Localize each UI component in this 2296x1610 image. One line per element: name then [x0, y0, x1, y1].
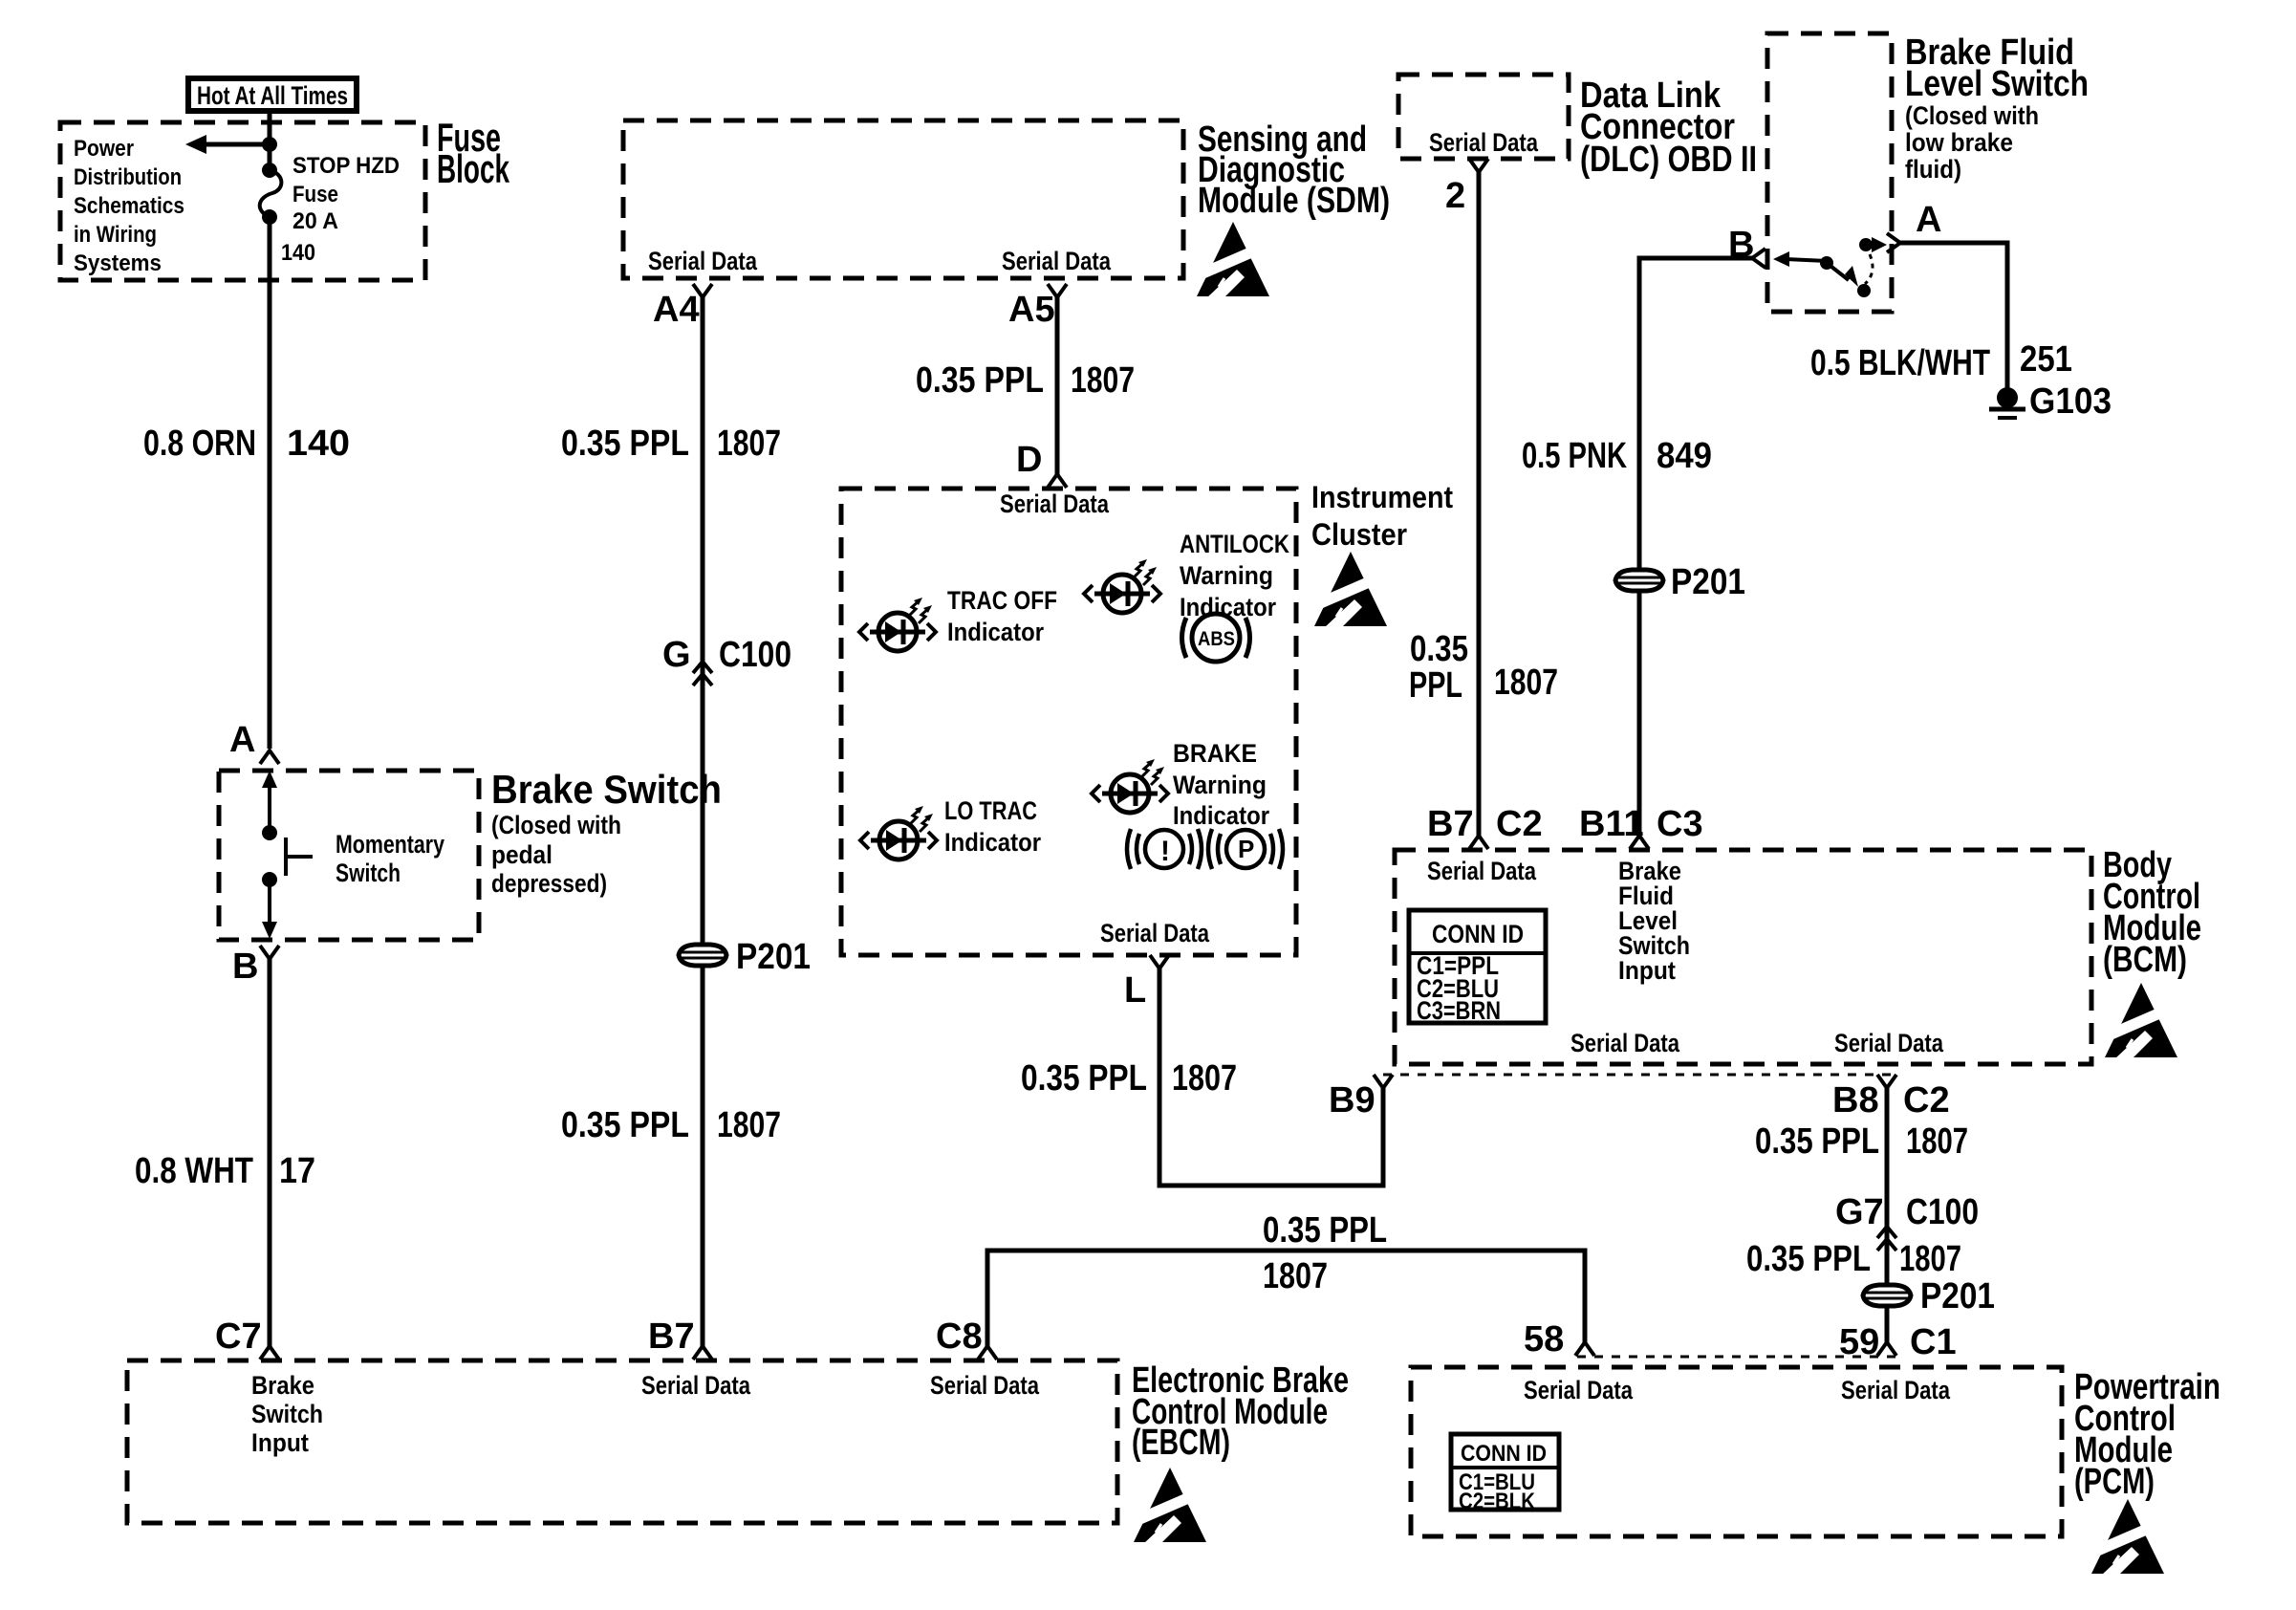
svg-text:(Closed with: (Closed with — [1905, 101, 2039, 130]
svg-text:Indicator: Indicator — [1173, 801, 1269, 830]
PCM connector face line — [1577, 1356, 1896, 1359]
svg-text:C2: C2 — [1496, 804, 1543, 844]
PCM dashed box — [1411, 1367, 2062, 1536]
svg-text:20 A: 20 A — [292, 208, 338, 234]
svg-text:0.35 PPL: 0.35 PPL — [1263, 1210, 1387, 1251]
wire: SDM A4 serial data down to EBCM B7 — [701, 297, 705, 1346]
svg-text:1807: 1807 — [1899, 1239, 1961, 1279]
wire: DLC pin 2 serial data down to BCM B7/C2 — [1477, 172, 1482, 836]
svg-text:ABS: ABS — [1198, 628, 1235, 650]
svg-text:Level Switch: Level Switch — [1905, 64, 2089, 104]
svg-text:Input: Input — [251, 1428, 309, 1457]
wire: fuse block feed from Hot At All Times — [268, 111, 272, 167]
svg-text:A4: A4 — [653, 290, 700, 330]
svg-text:Instrument: Instrument — [1311, 480, 1453, 514]
svg-text:B9: B9 — [1329, 1080, 1375, 1120]
DLC dashed box — [1398, 75, 1569, 159]
svg-text:B7: B7 — [1427, 804, 1474, 844]
svg-text:A5: A5 — [1008, 290, 1055, 330]
BFLS dashed box — [1767, 33, 1892, 312]
svg-text:(DLC) OBD II: (DLC) OBD II — [1580, 140, 1757, 180]
svg-text:1807: 1807 — [717, 1105, 781, 1145]
svg-text:CONN ID: CONN ID — [1461, 1441, 1547, 1467]
svg-text:!: ! — [1160, 836, 1170, 867]
ESD symbol EBCM — [1130, 1468, 1206, 1544]
svg-text:Switch: Switch — [251, 1400, 323, 1428]
svg-text:Warning: Warning — [1173, 771, 1267, 799]
ESD symbol SDM — [1193, 222, 1269, 298]
svg-text:Serial Data: Serial Data — [648, 247, 758, 275]
svg-text:C7: C7 — [215, 1316, 262, 1357]
svg-text:(Closed with: (Closed with — [491, 811, 621, 839]
svg-text:Systems: Systems — [74, 250, 162, 276]
svg-text:1807: 1807 — [717, 424, 781, 464]
svg-text:0.35 PPL: 0.35 PPL — [561, 1105, 689, 1145]
LED TRAC OFF indicator — [859, 598, 936, 651]
svg-text:D: D — [1016, 440, 1042, 480]
wire: BLK/WHT 251 from BFLS A right and down to ground — [1900, 243, 2007, 389]
svg-text:P201: P201 — [1671, 562, 1745, 602]
LED ANTILOCK warning indicator — [1084, 559, 1160, 613]
svg-text:Serial Data: Serial Data — [1570, 1029, 1680, 1057]
svg-text:0.35 PPL: 0.35 PPL — [1755, 1121, 1879, 1162]
svg-text:Fuse: Fuse — [292, 182, 338, 207]
svg-text:C2=BLK: C2=BLK — [1459, 1489, 1536, 1514]
svg-text:in Wiring: in Wiring — [74, 222, 157, 248]
svg-text:849: 849 — [1657, 436, 1712, 476]
svg-text:L: L — [1124, 970, 1146, 1011]
brake telltale symbol (!) — [1127, 829, 1202, 869]
svg-text:depressed): depressed) — [491, 869, 607, 898]
svg-text:140: 140 — [281, 240, 315, 266]
svg-text:17: 17 — [279, 1151, 315, 1191]
BCM dashed box — [1395, 850, 2091, 1064]
CONN ID table BCM — [1409, 910, 1546, 1023]
momentary switch contacts — [262, 771, 277, 788]
svg-text:2: 2 — [1445, 176, 1465, 216]
svg-text:Block: Block — [437, 146, 509, 191]
svg-text:1807: 1807 — [1263, 1256, 1328, 1296]
svg-text:0.5 PNK: 0.5 PNK — [1522, 436, 1627, 476]
svg-text:Momentary: Momentary — [336, 830, 444, 859]
svg-text:pedal: pedal — [491, 840, 552, 869]
wire: EBCM C8 serial data up/right/down to PCM 58 — [987, 1251, 1585, 1346]
svg-text:0.5 BLK/WHT: 0.5 BLK/WHT — [1810, 343, 1990, 383]
svg-text:Switch: Switch — [336, 859, 401, 887]
svg-text:Schematics: Schematics — [74, 193, 184, 219]
svg-text:Serial Data: Serial Data — [1000, 490, 1110, 518]
svg-text:fluid): fluid) — [1905, 155, 1961, 184]
svg-text:CONN ID: CONN ID — [1432, 920, 1524, 948]
svg-text:C8: C8 — [936, 1316, 983, 1357]
svg-text:Brake: Brake — [251, 1371, 314, 1400]
svg-text:58: 58 — [1524, 1319, 1564, 1360]
svg-text:Input: Input — [1618, 956, 1676, 985]
svg-text:P201: P201 — [1920, 1276, 1995, 1316]
power tag box Hot At All Times — [188, 78, 357, 111]
CONN ID table PCM — [1451, 1434, 1559, 1510]
svg-text:(EBCM): (EBCM) — [1132, 1423, 1230, 1463]
svg-text:251: 251 — [2020, 339, 2072, 380]
instrument cluster dashed box — [841, 489, 1296, 955]
svg-text:Serial Data: Serial Data — [1002, 247, 1112, 275]
svg-text:140: 140 — [287, 424, 350, 464]
svg-text:(PCM): (PCM) — [2074, 1462, 2155, 1502]
svg-text:PPL: PPL — [1409, 665, 1462, 706]
svg-text:1807: 1807 — [1071, 360, 1135, 401]
ground G103 — [1997, 387, 2018, 408]
svg-text:B7: B7 — [648, 1316, 695, 1357]
EBCM dashed box — [127, 1360, 1117, 1523]
svg-text:1807: 1807 — [1172, 1058, 1237, 1099]
svg-text:C2: C2 — [1903, 1080, 1950, 1120]
wire: IC L serial data down/right/up to BCM B9 — [1159, 968, 1383, 1186]
BCM connector face line — [1383, 1074, 1896, 1077]
svg-text:G7: G7 — [1835, 1192, 1884, 1232]
wire: fused output 140 inside fuse block down to brake switch A — [268, 220, 272, 749]
park telltale symbol (P) — [1208, 829, 1283, 869]
ESD symbol IC — [1310, 552, 1387, 628]
connector P201 on PNK wire — [1615, 570, 1663, 591]
switch contacts inside BFLS — [1820, 256, 1833, 270]
brake switch dashed box — [219, 771, 479, 940]
svg-text:Serial Data: Serial Data — [1524, 1376, 1634, 1404]
svg-text:Brake Switch: Brake Switch — [491, 767, 722, 812]
svg-text:P: P — [1238, 835, 1254, 863]
arrow to power distribution schematics — [203, 142, 270, 147]
svg-text:0.8 ORN: 0.8 ORN — [143, 424, 256, 464]
svg-text:G: G — [662, 635, 691, 675]
svg-text:C3: C3 — [1657, 804, 1703, 844]
svg-text:Serial Data: Serial Data — [1427, 857, 1537, 885]
svg-text:P201: P201 — [736, 937, 811, 977]
svg-text:C3=BRN: C3=BRN — [1417, 996, 1501, 1025]
svg-text:B: B — [232, 946, 258, 987]
svg-text:Serial Data: Serial Data — [641, 1371, 751, 1400]
svg-text:G103: G103 — [2029, 381, 2112, 422]
wire: brake switch B down to EBCM C7 — [268, 959, 272, 1346]
svg-text:0.35 PPL: 0.35 PPL — [916, 360, 1044, 401]
wire: PNK 849 from BFLS B down to BCM B11/C3 — [1639, 258, 1752, 836]
svg-text:ANTILOCK: ANTILOCK — [1180, 530, 1289, 558]
svg-text:STOP HZD: STOP HZD — [292, 153, 400, 179]
svg-text:Power: Power — [74, 136, 134, 162]
svg-text:Hot At All Times: Hot At All Times — [197, 81, 348, 110]
svg-text:0.35 PPL: 0.35 PPL — [561, 424, 689, 464]
ESD symbol BCM — [2101, 983, 2177, 1059]
svg-text:B11: B11 — [1579, 804, 1644, 844]
svg-text:Serial Data: Serial Data — [1100, 919, 1210, 947]
svg-text:0.35 PPL: 0.35 PPL — [1021, 1058, 1147, 1099]
ESD symbol PCM — [2088, 1499, 2164, 1576]
svg-text:A: A — [229, 720, 255, 760]
svg-text:Serial Data: Serial Data — [930, 1371, 1040, 1400]
wire: BCM B8 serial data down to PCM 59/C1 — [1885, 1088, 1890, 1342]
svg-text:LO TRAC: LO TRAC — [944, 796, 1037, 825]
LED BRAKE warning indicator — [1092, 759, 1168, 813]
svg-text:Serial Data: Serial Data — [1834, 1029, 1944, 1057]
svg-text:Cluster: Cluster — [1311, 517, 1407, 552]
svg-text:C100: C100 — [1906, 1192, 1979, 1232]
svg-text:0.35 PPL: 0.35 PPL — [1746, 1239, 1871, 1279]
svg-text:Warning: Warning — [1180, 561, 1273, 590]
svg-text:Serial Data: Serial Data — [1841, 1376, 1951, 1404]
wire: SDM A5 serial data down to IC D — [1055, 297, 1060, 474]
svg-text:1807: 1807 — [1494, 663, 1558, 703]
fuse STOP HZD 20A — [262, 163, 277, 178]
svg-text:B8: B8 — [1832, 1080, 1879, 1120]
LED LO TRAC indicator — [860, 806, 937, 859]
fuse block dashed box — [60, 122, 425, 280]
svg-text:Distribution: Distribution — [74, 164, 182, 190]
connector P201 on A4 wire — [679, 945, 726, 966]
svg-text:A: A — [1916, 200, 1941, 240]
connector P201 on B8 wire — [1863, 1285, 1911, 1306]
svg-text:BRAKE: BRAKE — [1173, 739, 1257, 768]
svg-text:Serial Data: Serial Data — [1429, 128, 1539, 157]
svg-text:TRAC OFF: TRAC OFF — [947, 586, 1057, 615]
ABS telltale symbol — [1182, 614, 1250, 662]
svg-text:low brake: low brake — [1905, 128, 2013, 157]
svg-text:C100: C100 — [719, 635, 791, 675]
svg-text:Module (SDM): Module (SDM) — [1198, 181, 1390, 221]
svg-text:Indicator: Indicator — [947, 618, 1044, 646]
SDM dashed box — [623, 120, 1183, 278]
svg-text:(BCM): (BCM) — [2103, 940, 2187, 980]
svg-text:Indicator: Indicator — [944, 828, 1041, 857]
svg-text:0.8 WHT: 0.8 WHT — [135, 1151, 253, 1191]
svg-text:1807: 1807 — [1906, 1121, 1968, 1162]
svg-text:0.35: 0.35 — [1410, 629, 1468, 669]
svg-text:C1: C1 — [1910, 1322, 1957, 1362]
